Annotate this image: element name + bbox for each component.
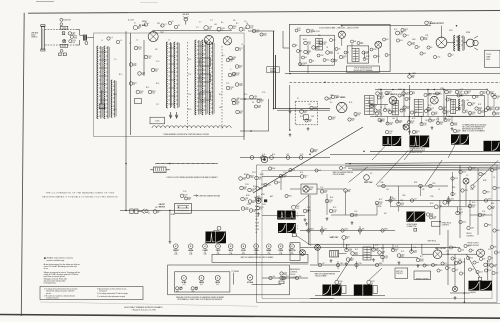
- resistor R22: [310, 106, 317, 110]
- svg-text:1500: 1500: [380, 94, 383, 96]
- svg-text:BRIGHTNESS: BRIGHTNESS: [290, 269, 300, 271]
- svg-text:C306: C306: [324, 190, 328, 192]
- svg-text:.047: .047: [255, 219, 258, 221]
- tube socket 12DT7A: [288, 244, 296, 256]
- afc component g2: [419, 184, 423, 188]
- svg-text:V-2: V-2: [204, 252, 206, 254]
- svg-text:C250: C250: [462, 172, 466, 174]
- gang capacitor dashed link: [187, 42, 189, 130]
- B-boost terminal M1: [60, 18, 71, 21]
- video takeoff component: [310, 149, 318, 153]
- waveform ref circle A: [385, 131, 392, 135]
- svg-text:10K: 10K: [332, 119, 335, 121]
- svg-text:.001: .001: [324, 229, 327, 231]
- svg-text:C153: C153: [245, 184, 249, 186]
- svg-text:R156: R156: [246, 195, 250, 197]
- svg-text:R 63: R 63: [472, 202, 475, 204]
- coil L-100: [60, 26, 68, 29]
- svg-text:TO TUNER: TO TUNER: [231, 271, 240, 273]
- svg-text:C159: C159: [247, 204, 251, 206]
- svg-text:4.7K: 4.7K: [496, 114, 499, 116]
- svg-text:6-8: 6-8: [413, 93, 415, 95]
- capacitor Ca1: [402, 92, 410, 96]
- svg-text:330: 330: [252, 202, 255, 204]
- svg-text:R 75: R 75: [401, 251, 404, 253]
- svg-text:R241: R241: [412, 75, 416, 77]
- module internal stub 2: [351, 44, 353, 49]
- svg-text:C210: C210: [427, 95, 431, 97]
- svg-text:R207: R207: [74, 36, 78, 38]
- svg-text:R 207: R 207: [255, 210, 259, 212]
- svg-text:68: 68: [252, 102, 254, 104]
- svg-text:L289: L289: [157, 210, 160, 212]
- sync feed wire y278: [262, 277, 308, 279]
- svg-text:V-2: V-2: [190, 252, 192, 254]
- waveform photo W20 horiz out: [480, 281, 492, 291]
- wire bus left: [240, 98, 262, 100]
- svg-text:470K: 470K: [245, 209, 248, 211]
- horiz section wire: [439, 200, 441, 235]
- svg-text:VERT OSC: VERT OSC: [330, 237, 339, 239]
- svg-text:C270: C270: [256, 30, 260, 32]
- svg-text:.047: .047: [318, 170, 321, 172]
- svg-text:L259: L259: [240, 111, 243, 113]
- afc component g1: [382, 184, 386, 188]
- svg-text:R303: R303: [379, 263, 383, 265]
- horiz osc tube V11: [443, 200, 451, 205]
- svg-text:.02: .02: [493, 177, 495, 179]
- svg-text:220: 220: [400, 34, 403, 36]
- svg-text:V-2: V-2: [255, 252, 257, 254]
- svg-text:C200: C200: [339, 281, 343, 283]
- svg-text:R313: R313: [296, 206, 300, 208]
- svg-text:C326: C326: [142, 72, 146, 74]
- 1st video amp tube V4: [337, 102, 347, 112]
- resistor R108: [362, 51, 369, 55]
- tube socket 2C26: [241, 244, 246, 256]
- afc labels: [378, 175, 495, 215]
- 2nd IF tube V5: [389, 97, 397, 105]
- down arrow J1: [169, 112, 172, 118]
- svg-text:VERT LIN: VERT LIN: [396, 271, 402, 273]
- svg-text:1K: 1K: [418, 47, 420, 49]
- svg-text:.001: .001: [72, 34, 75, 36]
- UHF antenna symbol: [182, 13, 189, 24]
- svg-text:.01: .01: [221, 30, 223, 32]
- svg-text:R267: R267: [355, 252, 359, 254]
- svg-text:C244: C244: [497, 96, 500, 98]
- capacitor C13: [226, 86, 234, 90]
- svg-text:C254: C254: [389, 131, 393, 133]
- svg-text:470: 470: [388, 55, 391, 57]
- svg-text:R301: R301: [288, 196, 292, 198]
- vert output bus wire: [300, 247, 460, 249]
- svg-text:1K: 1K: [326, 47, 328, 49]
- svg-text:C208: C208: [245, 198, 249, 200]
- svg-text:.01: .01: [447, 113, 449, 115]
- svg-text:C290: C290: [308, 119, 312, 121]
- svg-text:1K: 1K: [449, 268, 451, 270]
- svg-text:R237: R237: [490, 91, 494, 93]
- svg-text:2.2K: 2.2K: [236, 75, 239, 77]
- antenna terminal stack: [279, 272, 287, 284]
- module bottom bus wire: [285, 73, 500, 75]
- svg-text:10K: 10K: [283, 177, 286, 179]
- svg-text:.05: .05: [305, 57, 307, 59]
- resistor R31: [475, 107, 482, 111]
- svg-text:.05: .05: [430, 47, 432, 49]
- svg-text:.047: .047: [308, 121, 311, 123]
- horiz afc bus wire: [377, 185, 448, 187]
- mixer coil L3b: [174, 42, 179, 108]
- svg-text:C314: C314: [496, 112, 500, 114]
- capacitor C26: [348, 118, 355, 122]
- resistor R105: [304, 50, 312, 54]
- capacitor Cc1: [386, 122, 393, 126]
- svg-text:.005: .005: [389, 124, 392, 126]
- svg-text:R 29: R 29: [412, 118, 415, 120]
- svg-text:C228: C228: [494, 264, 498, 266]
- label to pix tube box: [485, 50, 500, 67]
- waveform photo W9 sync sep: [277, 211, 285, 220]
- svg-text:6BQ6GT: 6BQ6GT: [470, 292, 476, 294]
- svg-text:C 18: C 18: [262, 92, 265, 94]
- svg-text:R239: R239: [483, 180, 487, 182]
- svg-text:10K: 10K: [458, 264, 461, 266]
- svg-text:R263: R263: [314, 149, 318, 151]
- IF area extra vertical stubs: [372, 95, 495, 124]
- sound takeoff label: [267, 67, 279, 73]
- svg-text:C286: C286: [443, 107, 447, 109]
- waveform photo W11 agc: [278, 223, 286, 233]
- svg-text:L 3: L 3: [168, 40, 170, 42]
- ground terminal pair 2: [191, 287, 198, 291]
- horiz section wiring 6: [470, 214, 492, 216]
- vert section wiring 7: [353, 255, 383, 257]
- svg-text:10K: 10K: [334, 61, 337, 63]
- svg-text:V-2: V-2: [268, 252, 270, 254]
- ground terminal pair 1: [176, 287, 183, 291]
- svg-text:R323: R323: [420, 259, 424, 261]
- svg-text:R253: R253: [346, 236, 350, 238]
- test point TP1: [298, 63, 305, 67]
- AC plug P1: [130, 209, 148, 214]
- wire drop x170: [169, 211, 171, 240]
- svg-text:.001: .001: [386, 39, 389, 41]
- vert osc tube V8: [364, 175, 370, 181]
- waveform photo W5 agc: [451, 134, 460, 144]
- svg-text:C300: C300: [472, 112, 476, 114]
- svg-text:V-2: V-2: [280, 252, 282, 254]
- bottom right components k1: [454, 261, 462, 265]
- left tuner component a4: [136, 90, 144, 94]
- osc coil L4b: [202, 40, 207, 115]
- capacitor Ca2: [445, 90, 453, 94]
- svg-text:82K: 82K: [240, 113, 243, 115]
- svg-text:L329: L329: [429, 22, 432, 24]
- svg-text:V: V: [297, 229, 298, 231]
- page crease line left: [40, 302, 258, 306]
- svg-text:1K: 1K: [335, 97, 337, 99]
- svg-text:.05: .05: [463, 273, 465, 275]
- IF strip mid bus wire: [370, 104, 388, 106]
- sync components d1: [279, 174, 287, 178]
- svg-text:220: 220: [492, 208, 495, 210]
- tuner top extra components: [107, 21, 181, 44]
- component value labels: [129, 23, 494, 264]
- svg-text:82: 82: [355, 116, 357, 118]
- svg-text:4.7K: 4.7K: [333, 212, 336, 214]
- svg-text:C252: C252: [454, 178, 458, 180]
- svg-text:.047: .047: [407, 108, 410, 110]
- vert section wiring 9: [422, 253, 433, 255]
- wire video amp vertical: [289, 85, 291, 130]
- vert components f10: [416, 258, 424, 262]
- waveform leader 2: [404, 148, 414, 160]
- svg-text:R307: R307: [490, 107, 494, 109]
- sound IF module box: [289, 25, 390, 72]
- svg-text:R312: R312: [152, 91, 156, 93]
- wire IF input horizontal: [275, 108, 331, 110]
- svg-text:10K: 10K: [384, 213, 387, 215]
- svg-text:330: 330: [401, 256, 404, 258]
- svg-text:R 15: R 15: [146, 87, 149, 89]
- svg-text:470K: 470K: [412, 39, 416, 41]
- svg-text:C 216: C 216: [255, 229, 259, 231]
- svg-text:120: 120: [230, 61, 233, 63]
- sync section wiring 1: [262, 176, 300, 178]
- horiz section wiring 5: [469, 200, 471, 226]
- svg-text:L319: L319: [133, 63, 136, 65]
- svg-text:L 30: L 30: [466, 100, 469, 102]
- svg-text:C 5: C 5: [199, 22, 202, 24]
- svg-text:4.7K: 4.7K: [243, 179, 246, 181]
- svg-text:82K: 82K: [155, 71, 158, 73]
- bottom right dense cluster: [423, 244, 498, 275]
- bottom extra stub 1: [317, 248, 319, 251]
- svg-text:SWITCH: SWITCH: [159, 206, 166, 208]
- resistor R27: [354, 112, 361, 116]
- svg-text:R232: R232: [472, 205, 476, 207]
- svg-text:R247: R247: [454, 123, 458, 125]
- svg-text:220: 220: [494, 266, 497, 268]
- sync components d7: [375, 201, 383, 205]
- horiz components e3: [430, 216, 437, 220]
- waveform photo W10 sync sep: [285, 211, 295, 220]
- svg-text:.001: .001: [449, 100, 452, 102]
- svg-text:6-8: 6-8: [426, 265, 428, 267]
- matching transformer core: [83, 35, 88, 45]
- CRT harness wire 3: [348, 167, 500, 168]
- IF transformer T5: [392, 101, 399, 115]
- svg-text:C157: C157: [254, 197, 258, 199]
- wire IF drop 2: [403, 90, 405, 117]
- svg-text:R287: R287: [316, 46, 320, 48]
- afc tube V16: [463, 178, 469, 184]
- svg-text:120: 120: [237, 98, 240, 100]
- svg-text:C324: C324: [252, 189, 256, 191]
- sync area parts upper: [264, 166, 346, 197]
- svg-text:470: 470: [460, 96, 463, 98]
- wire vert seg x268: [268, 99, 270, 131]
- video bus component 4: [286, 156, 290, 160]
- svg-text:C 64: C 64: [482, 211, 485, 213]
- svg-text:C308: C308: [365, 51, 369, 53]
- right column parts: [451, 167, 500, 232]
- sync section wiring 2: [280, 177, 282, 191]
- svg-text:C226: C226: [432, 119, 436, 121]
- IF transformer T6: [414, 99, 423, 116]
- svg-text:.001: .001: [461, 250, 464, 252]
- right column wire 2: [477, 168, 479, 235]
- svg-text:.02: .02: [432, 121, 434, 123]
- tuner terminal d: [239, 27, 247, 32]
- CRT harness wire 1: [345, 162, 500, 163]
- afc component g3: [429, 184, 433, 188]
- svg-text:R211: R211: [488, 110, 491, 112]
- svg-text:4.7K: 4.7K: [412, 44, 415, 46]
- svg-text:L 6: L 6: [120, 40, 122, 42]
- svg-text:.01: .01: [482, 216, 484, 218]
- resistor Rc0: [239, 177, 247, 181]
- waveform ref circle E: [217, 226, 221, 230]
- vert bus wire y265: [310, 264, 455, 266]
- right tuner component b6: [232, 98, 240, 102]
- resistor Rb4: [427, 107, 434, 111]
- right tuner component b1: [235, 47, 243, 51]
- sync components d4: [303, 209, 311, 213]
- svg-text:C302: C302: [340, 263, 344, 265]
- svg-text:10K: 10K: [457, 132, 460, 134]
- wire module left entry: [283, 47, 289, 49]
- video bus component 5: [299, 156, 303, 160]
- svg-text:.005: .005: [236, 101, 239, 103]
- tube socket 20N6: [278, 244, 283, 256]
- svg-text:C260: C260: [349, 249, 353, 251]
- vert components f2: [351, 252, 359, 256]
- svg-text:R 53: R 53: [330, 197, 333, 199]
- svg-text:82K: 82K: [314, 151, 317, 153]
- svg-text:330: 330: [258, 107, 261, 109]
- video bus component 3: [270, 156, 274, 160]
- CRT harness wire 4: [352, 169, 500, 170]
- sound IF amp tube V101: [338, 31, 345, 38]
- svg-text:V-2: V-2: [291, 252, 293, 254]
- sync section wiring 5: [326, 194, 328, 215]
- resistor Rb7: [468, 111, 475, 115]
- ratio detector box: [347, 46, 369, 63]
- vert section wiring 11: [454, 254, 456, 286]
- control cable wire: [155, 163, 218, 165]
- oscillator tube V3: [223, 37, 231, 45]
- svg-text:470: 470: [414, 113, 417, 115]
- waveform photo W19 horiz out: [469, 281, 480, 291]
- svg-text:47K: 47K: [422, 189, 425, 191]
- svg-text:.02: .02: [260, 102, 262, 104]
- svg-text:.01: .01: [429, 23, 431, 25]
- resistor Rb0: [370, 104, 377, 108]
- tuner terminal b: [217, 27, 225, 32]
- svg-text:.05: .05: [483, 93, 485, 95]
- sync components d3: [325, 199, 333, 203]
- channel strip contact box 1: [200, 58, 211, 66]
- sync output tube V13: [477, 249, 485, 257]
- svg-text:R 81: R 81: [487, 261, 490, 263]
- svg-text:TOP OF SOUND MODULE: TOP OF SOUND MODULE: [354, 68, 372, 70]
- svg-text:C 56: C 56: [354, 211, 357, 213]
- svg-text:SHIELD: SHIELD: [31, 37, 38, 39]
- svg-text:C 54: C 54: [307, 207, 310, 209]
- tube heater terminal: [408, 75, 416, 79]
- capacitor Ca0: [376, 92, 383, 96]
- ref square S2: [414, 228, 417, 231]
- noise gate tube: [300, 250, 306, 256]
- svg-text:5AU8: 5AU8: [266, 249, 271, 252]
- horiz afc tube V10: [434, 205, 442, 210]
- svg-text:120: 120: [252, 191, 255, 193]
- svg-text:SEP: SEP: [310, 189, 313, 191]
- svg-text:L 1: L 1: [101, 40, 103, 42]
- svg-text:C275: C275: [184, 195, 188, 197]
- gang capacitor dashed link 2: [221, 46, 223, 130]
- svg-text:(4-B): (4-B): [267, 254, 271, 256]
- svg-text:R160: R160: [255, 206, 259, 208]
- svg-text:68: 68: [239, 67, 241, 69]
- resistor Rb8: [486, 106, 493, 110]
- waveform photo W6 agc: [460, 134, 469, 144]
- svg-text:C 12: C 12: [226, 83, 229, 85]
- capacitor C109: [339, 55, 346, 59]
- osc coil L4c: [209, 42, 214, 115]
- right column wire 1: [459, 165, 461, 238]
- fuse M4: [153, 210, 160, 215]
- svg-text:R 57: R 57: [379, 199, 382, 201]
- resistor Rc10: [249, 209, 257, 213]
- RF amp tube V1: [148, 32, 158, 42]
- svg-text:.5-3: .5-3: [210, 20, 213, 22]
- svg-text:R 12: R 12: [188, 59, 191, 61]
- svg-text:R 5: R 5: [236, 23, 239, 25]
- svg-text:V C: V C: [466, 175, 468, 177]
- page bottom rule: [0, 315, 500, 319]
- tube socket 3AL5: [228, 244, 233, 256]
- svg-text:.005: .005: [350, 260, 353, 262]
- resistor Rc11: [256, 206, 264, 210]
- coil L-102: [60, 44, 68, 47]
- svg-text:82K: 82K: [244, 189, 247, 191]
- svg-text:C245: C245: [239, 83, 243, 85]
- tuner shield outline: [94, 33, 245, 137]
- svg-text:2.2K: 2.2K: [385, 258, 388, 260]
- wire IF drop 5: [409, 85, 411, 135]
- audio coupling capacitor C111: [420, 37, 427, 41]
- svg-text:470: 470: [233, 20, 236, 22]
- left tuner component a2: [138, 72, 146, 76]
- waveform photo W21 blanking comp: [206, 232, 216, 244]
- svg-text:4.7K: 4.7K: [250, 27, 253, 29]
- svg-text:R317: R317: [244, 187, 248, 189]
- channel strip contact box 2: [200, 74, 211, 82]
- output transformer secondary: [459, 36, 465, 51]
- svg-text:VERT HOLD: VERT HOLD: [428, 241, 437, 243]
- svg-text:6-8: 6-8: [466, 112, 468, 114]
- svg-text:120: 120: [329, 99, 332, 101]
- tuner terminal c: [229, 25, 237, 30]
- svg-text:C 4: C 4: [111, 37, 113, 39]
- detector diode X2: [468, 102, 476, 107]
- quad coil can L105: [316, 39, 323, 51]
- leader to waveform g3: [466, 254, 479, 277]
